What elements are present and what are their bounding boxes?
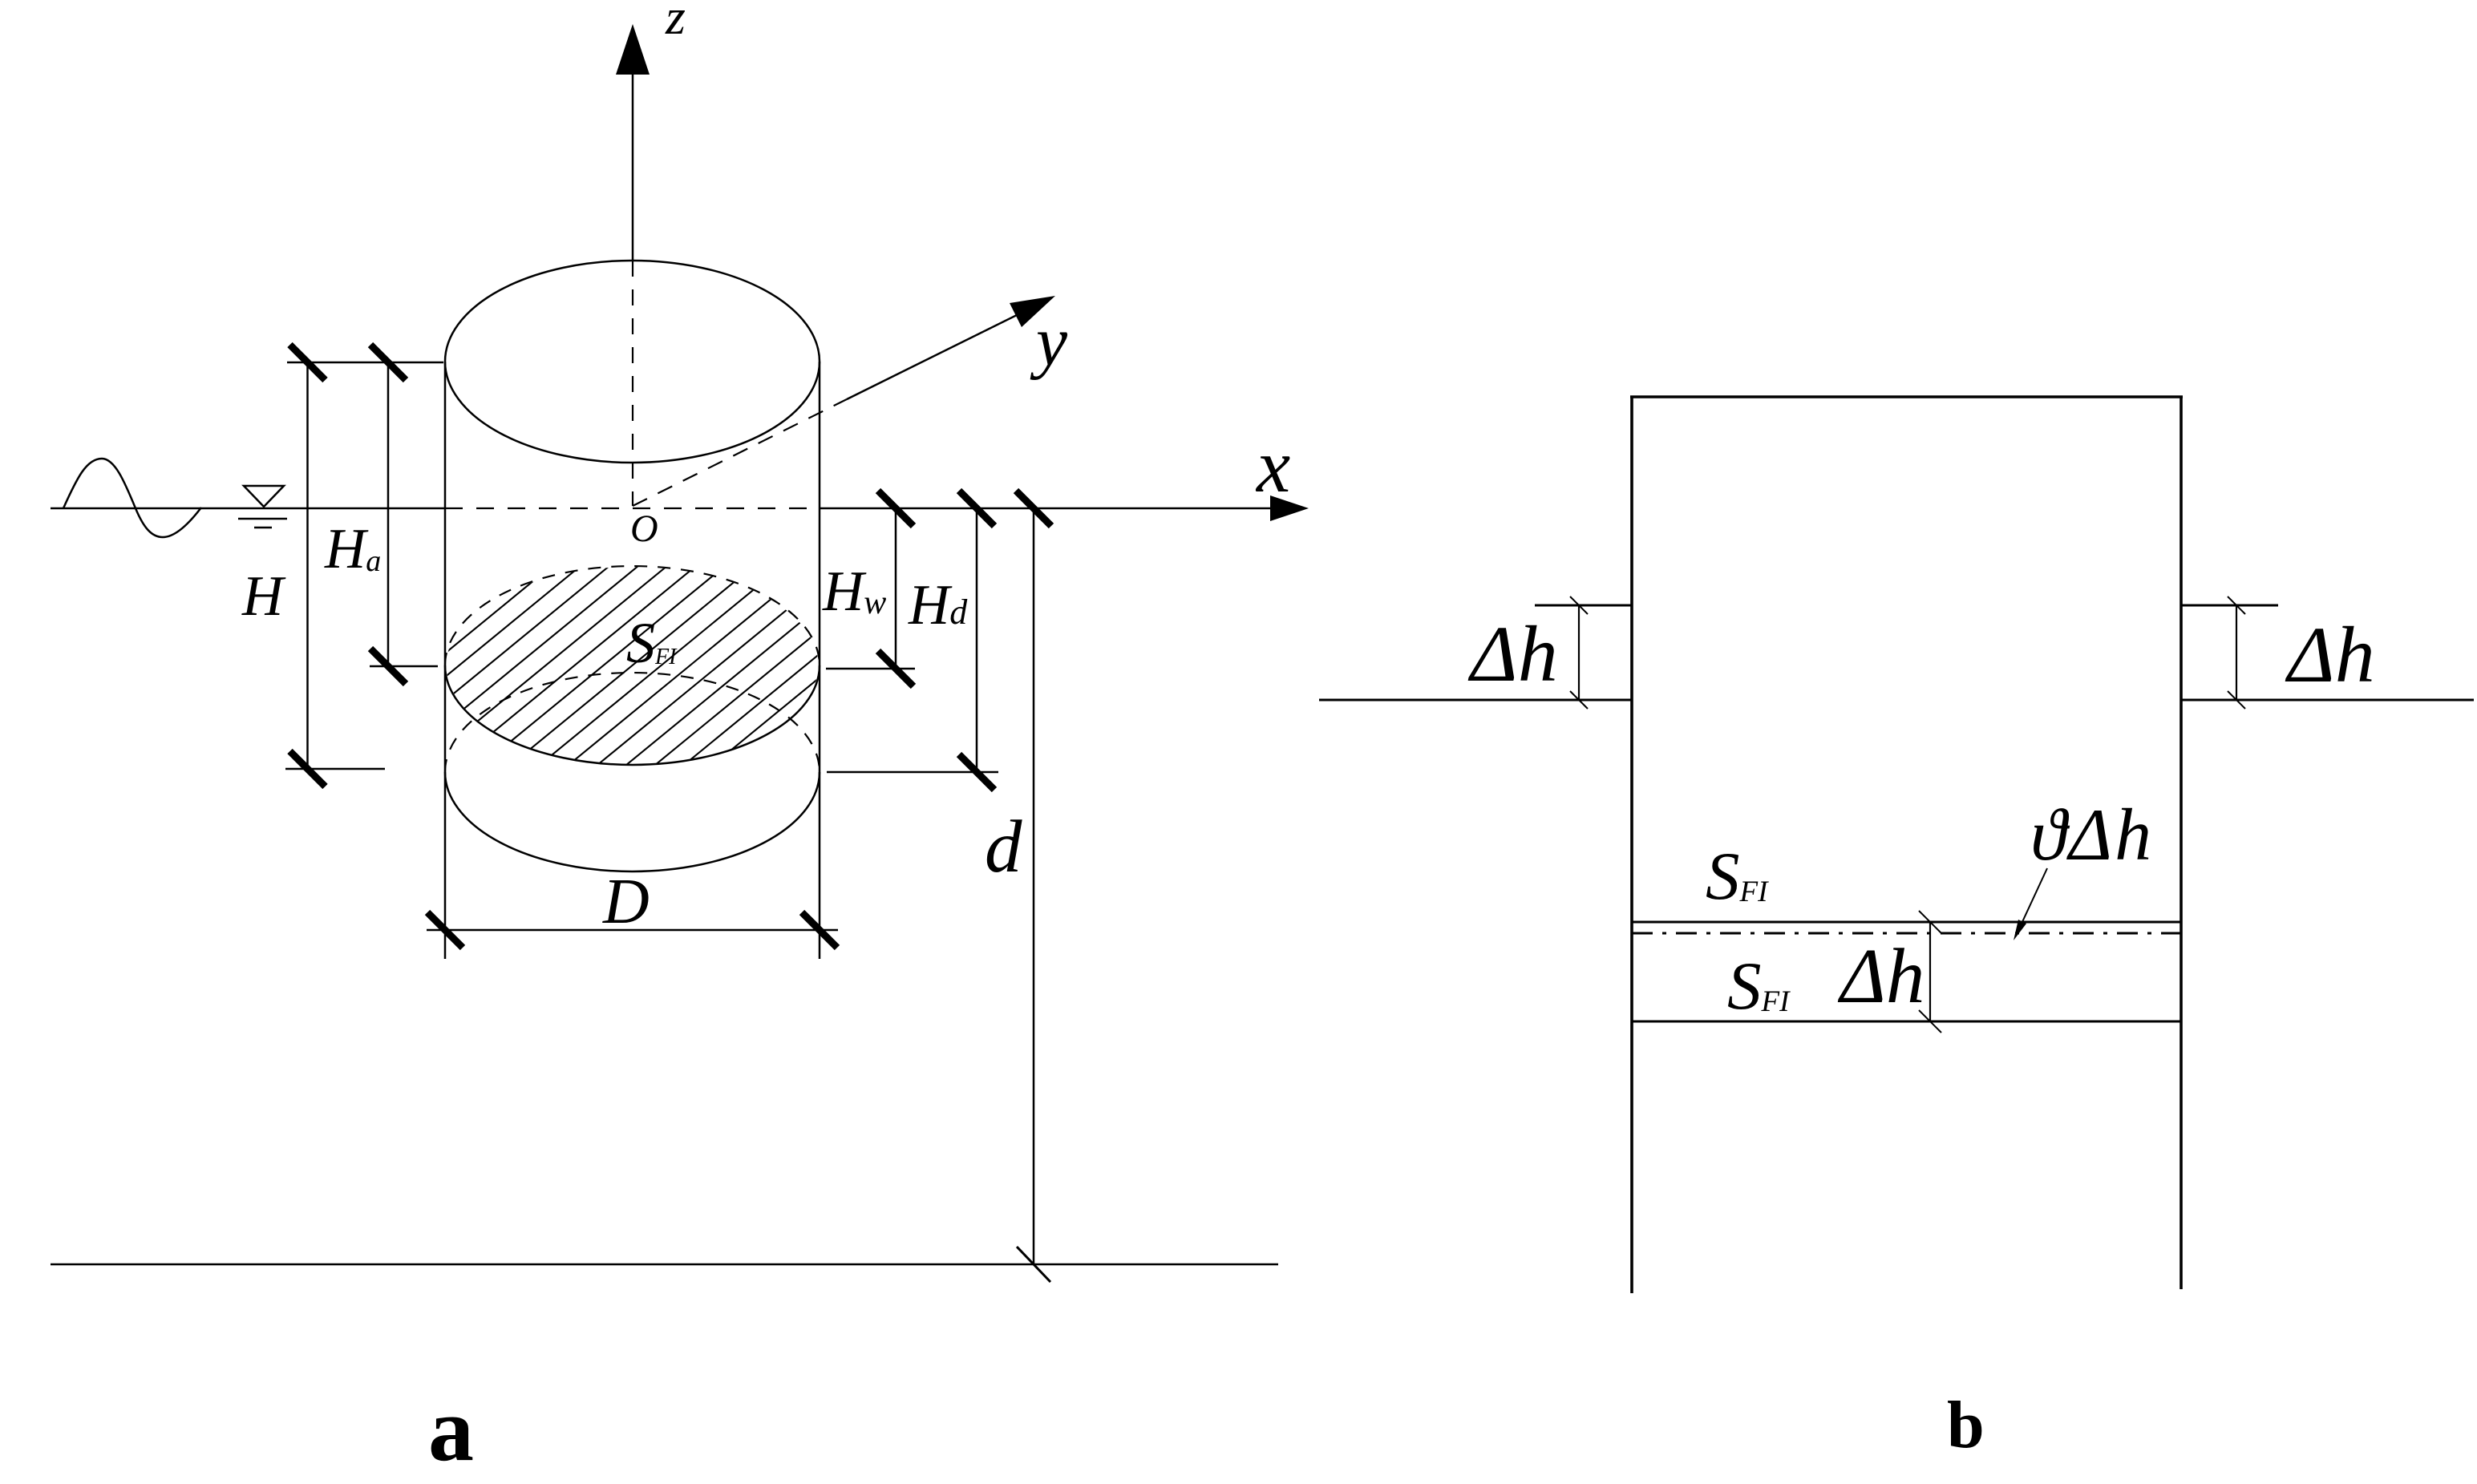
x-axis dashed through cylinder: [445, 507, 820, 509]
thin ticks panel b: [1570, 596, 2245, 1033]
svg-text:y: y: [1030, 303, 1068, 381]
displaced plate dash-dot line: [1632, 932, 2181, 935]
tick dh right top: [2228, 596, 2245, 614]
thick oblique ticks, panel a: [290, 345, 1052, 948]
svg-text:O: O: [630, 507, 658, 550]
plate top line: [1632, 921, 2181, 924]
dimension Hw bottom reference line: [826, 668, 915, 670]
tick H top: [290, 345, 326, 380]
tick x-axis d: [1016, 491, 1051, 526]
tick dh left bottom: [1570, 691, 1588, 709]
incident wave: [63, 459, 201, 537]
tick D left: [427, 912, 463, 948]
svg-text:x: x: [1255, 423, 1290, 508]
plate bottom line: [1632, 1021, 2181, 1023]
cylinder bottom back arc dashed: [445, 673, 820, 772]
svg-text:Δh: Δh: [2285, 610, 2375, 699]
tick Ha top: [370, 345, 406, 380]
dimension Hw line: [895, 508, 897, 669]
dim line dh left: [1578, 605, 1580, 700]
plate disc front arc solid: [445, 665, 820, 765]
tick x-axis Hw: [878, 491, 913, 526]
dimension H+Ha top reference line: [287, 362, 443, 364]
dimension Hd line: [976, 508, 978, 772]
cylinder left edge: [444, 362, 447, 959]
lower water line right: [2181, 699, 2474, 702]
dimension H bottom reference line: [285, 768, 385, 770]
svg-text:b: b: [1947, 1388, 1985, 1462]
x-axis solid right: [820, 507, 1272, 510]
seabed line: [51, 1264, 1278, 1266]
svg-text:H: H: [241, 565, 286, 628]
dimension H line: [306, 362, 309, 769]
tick H bottom: [290, 751, 326, 786]
cylinder bottom front arc solid: [445, 772, 820, 871]
dimension Ha bottom reference line: [370, 665, 438, 668]
tick dh inner bottom: [1919, 1010, 1941, 1033]
lower water line left: [1319, 699, 1632, 702]
tick Hd bottom: [959, 754, 994, 790]
x-axis solid left (water line): [51, 507, 445, 510]
cylinder top ellipse: [445, 261, 820, 463]
z-axis solid segment: [632, 75, 634, 261]
upper water stub left: [1535, 605, 1632, 607]
upper water stub right: [2181, 605, 2278, 607]
column left edge: [1630, 397, 1633, 1293]
column top edge: [1630, 395, 2183, 398]
leader arrow for theta dh: [2022, 868, 2047, 924]
z-axis dashed segment (inside cylinder): [632, 261, 633, 506]
thin tick d bottom: [1017, 1247, 1050, 1282]
x-axis arrowhead: [1270, 495, 1309, 521]
dimension d line: [1033, 508, 1035, 1264]
plate disc back arc dashed: [445, 566, 820, 665]
tick D right: [802, 912, 837, 948]
svg-text:a: a: [428, 1378, 474, 1480]
svg-text:D: D: [602, 867, 650, 937]
cylinder right edge: [819, 362, 821, 959]
dimension Ha line: [387, 362, 390, 666]
water level symbol: [244, 486, 284, 507]
tick dh right bottom: [2228, 691, 2245, 709]
dimension D line: [427, 929, 838, 932]
tick Ha bottom: [370, 649, 406, 684]
z-axis arrowhead: [616, 24, 650, 75]
y-axis solid segment: [847, 313, 1020, 399]
svg-text:Δh: Δh: [1837, 933, 1925, 1019]
plate disc hatch fill: [121, 554, 1144, 778]
dim line dh inner: [1929, 922, 1931, 1021]
y-axis dashed segment near origin: [633, 399, 847, 506]
tick dh inner top: [1919, 911, 1941, 933]
svg-text:ϑΔh: ϑΔh: [2030, 794, 2154, 875]
tick x-axis Hd: [959, 491, 994, 526]
leader arrowhead: [2014, 920, 2026, 940]
svg-text:d: d: [985, 806, 1022, 888]
svg-text:Δh: Δh: [1467, 609, 1558, 698]
column right edge: [2180, 397, 2183, 1289]
tick dh left top: [1570, 596, 1588, 614]
tick Hw bottom: [878, 651, 913, 686]
dimension Hd bottom reference line: [827, 771, 998, 774]
svg-text:z: z: [665, 0, 686, 45]
y-axis arrowhead: [1010, 296, 1055, 327]
dim line dh right: [2236, 605, 2237, 700]
